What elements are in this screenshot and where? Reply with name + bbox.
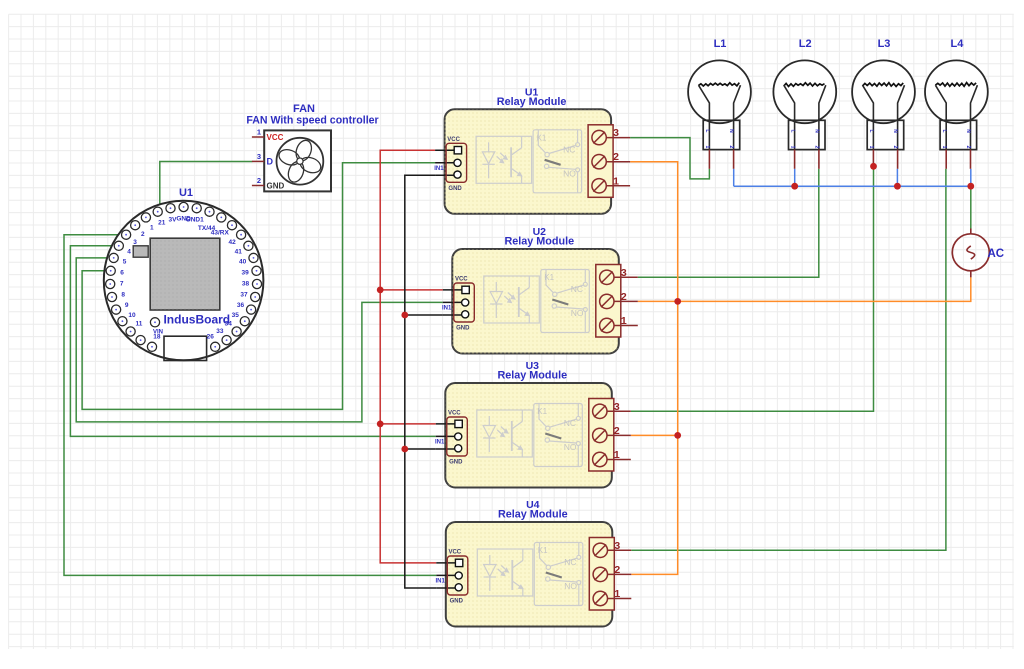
svg-text:4: 4 <box>127 248 131 255</box>
svg-text:NC: NC <box>564 557 576 567</box>
svg-text:3: 3 <box>621 267 627 279</box>
svg-text:K1: K1 <box>544 273 554 282</box>
svg-text:L4: L4 <box>950 38 964 50</box>
svg-text:34: 34 <box>225 321 233 328</box>
svg-text:GND: GND <box>450 599 464 605</box>
svg-text:40: 40 <box>239 259 247 266</box>
svg-text:NC: NC <box>563 144 575 154</box>
svg-text:1: 1 <box>789 146 795 149</box>
svg-text:2: 2 <box>257 176 261 185</box>
svg-text:NC: NC <box>571 284 583 294</box>
svg-text:NO: NO <box>563 168 576 178</box>
svg-text:VCC: VCC <box>455 277 468 283</box>
svg-text:2: 2 <box>614 564 620 576</box>
svg-text:IN1: IN1 <box>435 579 445 585</box>
svg-text:NO: NO <box>564 581 577 591</box>
svg-text:NC: NC <box>564 418 576 428</box>
svg-text:33: 33 <box>216 328 224 335</box>
svg-text:L: L <box>789 130 795 133</box>
svg-text:GND: GND <box>448 186 462 192</box>
svg-text:1: 1 <box>613 175 619 187</box>
svg-text:3: 3 <box>614 401 620 413</box>
svg-text:35: 35 <box>232 312 240 319</box>
svg-text:26: 26 <box>207 334 215 341</box>
svg-text:9: 9 <box>125 302 129 309</box>
svg-text:8: 8 <box>121 292 125 299</box>
svg-text:2: 2 <box>141 231 145 238</box>
svg-text:1: 1 <box>621 315 627 327</box>
svg-text:3: 3 <box>614 540 620 552</box>
svg-text:21: 21 <box>158 220 166 227</box>
svg-text:K1: K1 <box>538 546 548 555</box>
svg-text:39: 39 <box>241 270 249 277</box>
svg-text:VCC: VCC <box>448 411 461 417</box>
svg-text:GND: GND <box>267 182 285 191</box>
svg-text:18: 18 <box>153 334 161 341</box>
svg-text:2: 2 <box>614 425 620 437</box>
svg-text:6: 6 <box>120 270 124 277</box>
svg-text:IN1: IN1 <box>442 306 452 312</box>
svg-text:GND1: GND1 <box>186 217 204 224</box>
svg-text:L3: L3 <box>878 38 891 50</box>
svg-text:L: L <box>704 129 710 132</box>
svg-text:2: 2 <box>621 291 627 303</box>
svg-text:2: 2 <box>965 146 971 149</box>
svg-text:GND: GND <box>456 326 470 332</box>
svg-text:38: 38 <box>242 281 250 288</box>
svg-text:N: N <box>892 129 898 133</box>
svg-text:IN1: IN1 <box>435 440 445 446</box>
svg-text:3: 3 <box>613 127 619 139</box>
svg-text:VCC: VCC <box>448 550 461 556</box>
svg-text:36: 36 <box>237 302 245 309</box>
svg-text:2: 2 <box>892 146 898 149</box>
svg-text:FAN: FAN <box>293 103 315 115</box>
svg-text:41: 41 <box>235 248 243 255</box>
svg-text:U1: U1 <box>179 187 193 199</box>
svg-text:5: 5 <box>123 259 127 266</box>
svg-text:1: 1 <box>257 128 261 137</box>
svg-text:7: 7 <box>120 281 124 288</box>
svg-text:10: 10 <box>128 312 136 319</box>
svg-text:Relay Module: Relay Module <box>497 96 567 108</box>
svg-text:NO: NO <box>571 308 584 318</box>
svg-text:IndusBoard: IndusBoard <box>163 313 230 327</box>
svg-text:K1: K1 <box>537 407 547 416</box>
svg-text:IN1: IN1 <box>434 166 444 172</box>
svg-text:3: 3 <box>257 152 261 161</box>
svg-text:2: 2 <box>813 146 819 149</box>
svg-text:1: 1 <box>941 146 947 149</box>
svg-text:1: 1 <box>614 449 620 461</box>
svg-text:L: L <box>941 130 947 133</box>
svg-text:NO: NO <box>564 442 577 452</box>
svg-text:L: L <box>868 130 874 133</box>
svg-text:37: 37 <box>240 292 248 299</box>
svg-text:1: 1 <box>704 146 710 149</box>
svg-text:D: D <box>267 156 274 166</box>
svg-text:AC: AC <box>988 248 1005 260</box>
svg-text:FAN With speed controller: FAN With speed controller <box>246 114 378 126</box>
svg-text:1: 1 <box>150 225 154 232</box>
svg-text:1: 1 <box>614 588 620 600</box>
svg-text:N: N <box>965 129 971 133</box>
svg-text:11: 11 <box>135 321 142 328</box>
svg-text:VCC: VCC <box>447 137 460 143</box>
svg-text:K1: K1 <box>537 133 547 142</box>
svg-text:L1: L1 <box>714 38 727 50</box>
svg-text:N: N <box>728 129 734 133</box>
svg-text:VCC: VCC <box>267 133 284 142</box>
svg-text:Relay Module: Relay Module <box>497 370 567 382</box>
svg-text:42: 42 <box>228 239 236 246</box>
svg-text:L2: L2 <box>799 38 812 50</box>
svg-text:GND: GND <box>449 460 463 466</box>
svg-text:2: 2 <box>613 151 619 163</box>
svg-text:2: 2 <box>728 146 734 149</box>
svg-text:Relay Module: Relay Module <box>504 236 574 248</box>
svg-text:1: 1 <box>868 146 874 149</box>
svg-text:Relay Module: Relay Module <box>498 509 568 521</box>
svg-text:3: 3 <box>133 239 137 246</box>
svg-text:43/RX: 43/RX <box>211 230 230 237</box>
svg-text:N: N <box>813 129 819 133</box>
